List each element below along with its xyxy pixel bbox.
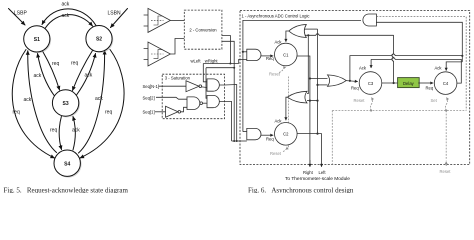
svg-text:S3: S3 xyxy=(63,101,69,107)
or gate OR3 (feeds C3 Req) xyxy=(328,75,347,86)
block 3-Saturation xyxy=(162,74,224,119)
node label Seq[2] xyxy=(143,95,155,100)
C-element C3 xyxy=(359,72,382,95)
wire wLeft horizontal run xyxy=(203,63,238,65)
wire gray reset drop to C2 xyxy=(288,77,290,148)
svg-text:ack: ack xyxy=(34,73,42,79)
wire Seq[N-1] input xyxy=(159,85,187,87)
wire comparator U2 output up into conversion box xyxy=(170,39,184,55)
comparator U2 (bottom, with hysteresis) xyxy=(144,42,171,66)
comparator U1 (top, with hysteresis) xyxy=(144,8,171,32)
node label Set (C4) gray xyxy=(431,98,438,103)
svg-text:ack: ack xyxy=(95,96,103,102)
node label Ack (C3) xyxy=(359,66,367,71)
svg-text:C4: C4 xyxy=(443,81,449,86)
C-element C4 xyxy=(434,72,457,95)
svg-text:LSBN: LSBN xyxy=(108,11,121,17)
and gate G1 (C1 request) xyxy=(247,49,261,60)
node label Req (C3) xyxy=(351,85,359,90)
svg-text:S1: S1 xyxy=(34,37,40,43)
wire wRight down into saturation xyxy=(206,68,207,99)
wire req S3 to S4 xyxy=(59,116,61,150)
wire G3 input solid from right xyxy=(376,22,462,56)
svg-text:Reset: Reset xyxy=(354,98,366,103)
and gate G3 (top, left-facing) xyxy=(363,14,377,26)
gray reset squiggle to C3 xyxy=(370,98,372,111)
svg-text:ack: ack xyxy=(72,128,80,134)
node label ack (S4-S2) xyxy=(95,96,103,102)
node label LSBN xyxy=(108,11,121,17)
wire V3 branch to OR2 input 2 (with hop over V2) xyxy=(307,100,318,102)
node label Ack (C4) xyxy=(435,66,443,71)
svg-text:Reset: Reset xyxy=(269,71,281,76)
node label wRight xyxy=(205,58,219,63)
wire ack S4 to S1 (inner left) xyxy=(28,51,57,153)
state S3 xyxy=(52,90,80,118)
wire ack S4 to S3 xyxy=(73,117,75,151)
wire Seq[1] input xyxy=(155,111,166,113)
gray reset external drop xyxy=(445,111,447,167)
wire feedback rail from top AND (W_top + rail down) xyxy=(243,20,361,131)
node label ack (top) xyxy=(62,1,70,7)
wire C1 output right then down (V2) xyxy=(297,56,311,167)
wire conversion output 1 (wLeft drop) xyxy=(222,36,231,64)
wire saturation output top (to C2 area) xyxy=(219,85,237,143)
wire LSBP entry arrow into S1 xyxy=(9,9,26,26)
svg-text:C1: C1 xyxy=(283,52,289,57)
node label Reset (C2) gray xyxy=(270,151,282,156)
wire G3 input dashed from right xyxy=(376,17,466,111)
block 1-Asynchronous ADC Control Logic xyxy=(240,11,470,165)
wire C3 output to Delay xyxy=(382,82,398,84)
svg-text:Req: Req xyxy=(266,56,274,61)
and gate G2 (C2 request) xyxy=(247,128,261,139)
wire G1 inputs xyxy=(242,51,247,53)
node label Req (C2) xyxy=(266,136,274,141)
wire C3-out feedback up to OR1 line xyxy=(392,35,394,83)
node label req (S1-S3) xyxy=(52,61,59,67)
svg-text:req: req xyxy=(71,60,78,66)
wire Seq[2] input to AND C xyxy=(156,97,187,99)
wire Right output arrow below box xyxy=(309,160,311,167)
gray reset rail left drop xyxy=(331,111,333,165)
svg-text:1 - Asynchronous ADC Control L: 1 - Asynchronous ADC Control Logic xyxy=(242,14,310,19)
svg-text:wRight: wRight xyxy=(205,58,219,63)
svg-text:Ack: Ack xyxy=(275,118,283,123)
inverter in saturation (top) xyxy=(186,81,202,92)
wire wRight rail down to C2 request AND xyxy=(233,68,235,141)
wire C3 Ack arrow xyxy=(370,59,372,68)
wire comparator U1 output to conversion box xyxy=(170,19,184,21)
wire wLeft branch up to C1 request AND xyxy=(239,59,247,63)
svg-text:Right: Right xyxy=(303,170,314,175)
svg-text:ack: ack xyxy=(85,72,93,78)
wire wLeft down into saturation xyxy=(203,64,207,82)
node label req (S2-S4) xyxy=(105,109,112,115)
caption Fig.5 xyxy=(4,186,129,194)
state S1 xyxy=(24,26,51,53)
C-element C1 xyxy=(275,43,298,66)
inverter in saturation (bottom) xyxy=(166,106,181,117)
wire LSBN entry arrow into S2 xyxy=(111,9,128,28)
svg-text:Left: Left xyxy=(319,170,327,175)
svg-text:ack: ack xyxy=(62,1,70,7)
wire ack S3 to S1 xyxy=(38,54,55,97)
svg-text:req: req xyxy=(105,109,112,115)
svg-text:ack: ack xyxy=(62,13,70,19)
wire V3 branch to OR3 input 2 xyxy=(318,84,328,86)
svg-text:2 - Conversion: 2 - Conversion xyxy=(189,28,217,33)
wire C4 Ack tap from right vertical xyxy=(446,56,462,71)
svg-text:C2: C2 xyxy=(283,132,289,137)
wire inverter2 to AND C xyxy=(181,107,187,112)
gray reset C1 xyxy=(279,67,286,72)
svg-text:Fig. 6. Asynchronous control: Fig. 6. Asynchronous control design xyxy=(248,186,354,193)
node label req (S1-S4) xyxy=(13,109,20,115)
node label ack (S4-S1) xyxy=(24,97,32,103)
wire V1: OR1-in2 node down to OR2 input xyxy=(307,35,308,93)
or gate OR1 (left-facing, above C1) xyxy=(289,25,307,38)
wire OR1 input 1 xyxy=(305,28,318,30)
wire wRight horizontal run xyxy=(206,67,235,69)
wire line A: C3-req node up and right to C4 side xyxy=(350,54,464,81)
node label req (S3-S4) xyxy=(50,128,57,134)
wire ack S2 to S1 (upper arc) xyxy=(42,9,96,26)
and gate B (saturation bottom-right) xyxy=(207,95,219,107)
delay element xyxy=(398,78,420,88)
block 2-Conversion xyxy=(184,10,222,49)
svg-text:LSBP: LSBP xyxy=(14,11,27,17)
svg-text:Fig. 5. Request-acknowledge: Fig. 5. Request-acknowledge state diagra… xyxy=(4,186,129,193)
wire inverter to AND A xyxy=(202,86,207,89)
wire ack S3 to S2 xyxy=(77,54,96,96)
gray reset C2 squiggle xyxy=(283,147,287,152)
wire G2 output arrow to C2 Req xyxy=(261,134,273,136)
node label ack (second) xyxy=(62,13,70,19)
or gate OR2 (left-facing, feeds C2 Ack) xyxy=(287,91,307,103)
node label req (S2-S3) xyxy=(71,60,78,66)
svg-text:Ack: Ack xyxy=(275,40,283,45)
wire Delay output arrow to C4 Req xyxy=(418,82,433,84)
node label Ack (C2) xyxy=(275,118,283,123)
svg-text:Ack: Ack xyxy=(359,66,367,71)
wire C1-out branch to OR3 input 1 xyxy=(310,78,328,80)
svg-text:Ack: Ack xyxy=(435,66,443,71)
svg-text:To Thermometer-scale Module: To Thermometer-scale Module xyxy=(285,176,350,182)
node label Reset (C1) gray xyxy=(269,71,281,76)
wire OR2 output into C2 Ack xyxy=(286,97,288,120)
node label Req (C4) xyxy=(426,85,434,90)
wire line B: C3 Ack from C4 output xyxy=(371,58,461,63)
wire G1 output arrow to C1 Req xyxy=(261,55,273,57)
wire G2 top input from rail xyxy=(243,131,247,133)
node label ack (S3-S1) xyxy=(34,73,42,79)
wire OR1 input 2 (from C3 feedback) with junction xyxy=(305,34,394,37)
svg-text:ack: ack xyxy=(24,97,32,103)
svg-text:req: req xyxy=(13,109,20,115)
wire C2 output to V3 xyxy=(297,134,321,167)
svg-text:S4: S4 xyxy=(64,161,70,167)
wire req S1 to S3 xyxy=(43,51,60,90)
wire req S2 to S4 (outer right) xyxy=(80,50,124,159)
state S2 xyxy=(86,25,113,52)
wire C4 output to right vertical xyxy=(457,63,461,84)
gray reset rail (dashed) xyxy=(332,109,466,111)
node label Seq[1] xyxy=(143,109,155,114)
svg-text:Req: Req xyxy=(351,85,359,90)
svg-text:Delay: Delay xyxy=(403,81,415,86)
C-element C2 xyxy=(275,123,298,146)
wire req S2 to S3 xyxy=(73,51,93,91)
svg-text:req: req xyxy=(50,128,57,134)
node label Reset (C3) gray xyxy=(354,98,366,103)
and gate A (saturation top-right) xyxy=(207,79,219,91)
svg-text:req: req xyxy=(52,61,59,67)
node label Seq[N-1] xyxy=(143,84,160,89)
svg-text:Seq[N-1]: Seq[N-1] xyxy=(143,84,160,89)
wire ack S4 to S2 (inner right) xyxy=(79,51,105,154)
node label Ack (C1) xyxy=(275,40,283,45)
svg-text:Req: Req xyxy=(266,136,274,141)
svg-text:Seq[1]: Seq[1] xyxy=(143,109,155,114)
caption Fig.6 xyxy=(248,186,354,194)
svg-text:S2: S2 xyxy=(96,37,102,43)
node label ack (S3-S2) xyxy=(85,72,93,78)
svg-text:Set: Set xyxy=(431,98,438,103)
gray set squiggle to C4 xyxy=(445,98,447,111)
node label ack (S4-S3) xyxy=(72,128,80,134)
node label LSBP xyxy=(14,11,27,17)
wire saturation output bottom xyxy=(219,102,231,142)
wire ack S1 to S2 (lower arc) xyxy=(45,15,93,29)
node label Reset (external) gray xyxy=(440,169,452,174)
wire conversion output 2 (wRight drop) xyxy=(222,41,234,67)
wire to C2 AND lower input xyxy=(232,140,247,142)
node label Req (C1) xyxy=(266,56,274,61)
state S4 xyxy=(54,150,82,178)
svg-text:3 - Saturation: 3 - Saturation xyxy=(165,75,191,80)
svg-text:Reset: Reset xyxy=(440,169,452,174)
svg-text:C3: C3 xyxy=(368,81,374,86)
svg-text:Seq[2]: Seq[2] xyxy=(143,95,155,100)
wire req S1 to S4 (outer left) xyxy=(12,50,54,159)
wire OR3 output to C3 Req xyxy=(346,80,357,82)
node label Right xyxy=(303,170,314,175)
wire AND C to AND B xyxy=(203,102,208,104)
wire V3 long vertical (feedback / Left output) xyxy=(316,29,318,135)
wire OR1 output into C1 Ack xyxy=(286,31,289,42)
svg-text:Req: Req xyxy=(426,85,434,90)
svg-text:Reset: Reset xyxy=(270,151,282,156)
and gate C (saturation middle-left) xyxy=(187,97,203,110)
node label Left xyxy=(319,170,327,175)
node label wLeft xyxy=(190,58,201,63)
node label To Thermometer-scale Module xyxy=(285,176,350,182)
svg-text:wLeft: wLeft xyxy=(190,58,201,63)
